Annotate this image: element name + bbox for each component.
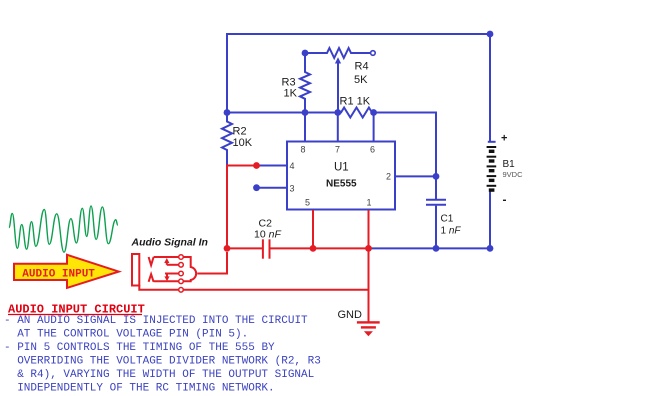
node junction dot (227,112.5) [224,109,231,116]
jack switch arrow down [164,274,169,282]
note body text [4,315,321,395]
battery B1 [487,146,497,192]
audio input waveform [9,206,118,252]
wire pin 1 stub [368,210,370,248]
jack switch arrow up [164,258,179,265]
resistor R3 [300,53,310,113]
wire pin 5 stub [312,210,314,248]
svg-text:C1: C1 [441,214,454,225]
node junction dot pin4 red (256.5,165.5) [253,162,260,169]
svg-text:8: 8 [301,145,306,155]
node junction dot pin5 (313,248.4) [310,245,317,252]
wire pin 4 blue segment [257,165,288,167]
svg-text:1K: 1K [284,88,298,100]
node junction dot (305,53) [302,50,309,57]
wire pin 3 stub [257,187,288,189]
jack tip contact arm [149,257,179,265]
jack output bracket and wire to audio node [183,252,227,281]
svg-text:R4: R4 [355,61,369,73]
svg-text:- PIN 5 CONTROLS THE TIMING OF: - PIN 5 CONTROLS THE TIMING OF THE 555 B… [4,342,275,354]
svg-text:10K: 10K [233,137,253,149]
R4 open terminal [371,51,376,56]
resistor R2 [222,113,232,166]
connector J1 audio jack sleeve body [132,254,139,286]
svg-text:OVERRIDING THE VOLTAGE DIVIDER: OVERRIDING THE VOLTAGE DIVIDER NETWORK (… [17,356,321,368]
svg-text:- AN AUDIO SIGNAL IS INJECTED: - AN AUDIO SIGNAL IS INJECTED INTO THE C… [4,315,308,327]
jack contact circle c3 [179,271,184,276]
node junction dot (436,176.4) pin2/C1 [433,173,440,180]
wire pin 6 stub [373,113,375,142]
svg-text:5: 5 [305,198,310,208]
svg-text:4: 4 [290,161,295,171]
resistor R1 [338,108,374,118]
svg-text:R1 1K: R1 1K [340,96,371,108]
svg-text:7: 7 [335,145,340,155]
wire pin 4 red segment and drop to audio node [227,166,257,249]
svg-text:9VDC: 9VDC [503,170,524,179]
svg-text:5K: 5K [354,74,368,86]
jack ring contact arm [149,274,179,282]
svg-text:AUDIO INPUT: AUDIO INPUT [22,269,95,281]
svg-text:10 nF: 10 nF [254,229,281,241]
svg-text:INDEPENDENTLY OF THE RC TIMING: INDEPENDENTLY OF THE RC TIMING NETWORK. [17,383,274,395]
capacitor C2 [263,239,313,258]
jack contact circle c4 [179,279,184,284]
svg-text:+: + [501,133,507,145]
wire bottom blue rail [369,247,491,249]
node junction dot (337.8,112.5) [334,109,341,116]
op-amp U1 NE555 IC body [287,142,395,210]
wire jack sleeve return to GND [183,289,369,291]
node junction dot (373.6,112.5) [370,109,377,116]
svg-text:-: - [503,193,507,207]
battery terminal cap [488,141,496,143]
wire divider bus y=112.5 from R2 top to R1 left [227,112,338,114]
capacitor C1 [426,176,446,248]
R4 wiper arrow [335,57,341,112]
jack contact circle c1 [179,255,184,260]
svg-text:GND: GND [338,309,363,321]
wire jack body to sleeve contact [139,285,178,290]
node junction dot (490,34) [487,31,494,38]
svg-text:B1: B1 [503,159,516,170]
node junction dot (305,112.5) [302,109,309,116]
svg-text:2: 2 [386,172,391,182]
wire VCC top rail (left vertical, top horizontal, right drop to battery +) [227,34,490,141]
node junction dot (490,248.4) [487,245,494,252]
AUDIO INPUT callout arrow [14,255,119,288]
svg-text:NE555: NE555 [326,179,357,190]
wire battery negative to bottom rail corner [489,192,491,249]
node junction dot GND top (368.5,248.4) [365,245,372,252]
wire GND vertical drop [368,248,370,322]
node junction dot (436,248.4) [433,245,440,252]
svg-text:R2: R2 [233,126,247,138]
wire R1 right to C1 branch top [374,113,436,177]
jack contact circle c2 [179,263,184,268]
svg-text:U1: U1 [334,162,349,174]
svg-text:6: 6 [370,145,375,155]
wire pin 8 stub [304,113,306,142]
svg-text:1 nF: 1 nF [441,226,462,237]
svg-text:3: 3 [290,184,295,194]
node stub dot pin3 (256.5,187.7) [253,184,260,191]
svg-text:AT THE CONTROL VOLTAGE PIN (PI: AT THE CONTROL VOLTAGE PIN (PIN 5). [17,329,248,341]
jack contact circle c5 [179,288,184,293]
node junction dot audio node (227,248.4) [224,245,231,252]
wire pin 2 to C1 node [395,175,436,177]
potentiometer R4 [305,48,371,58]
svg-text:Audio Signal In: Audio Signal In [131,237,208,249]
wire pin 7 stub [337,113,339,142]
ground [357,321,380,336]
svg-text:& R4), VARYING THE WIDTH OF TH: & R4), VARYING THE WIDTH OF THE OUTPUT S… [17,369,314,381]
svg-text:1: 1 [367,198,372,208]
wire pin5 node to GND node [313,247,369,249]
wire audio node to C2 left plate [227,247,262,249]
